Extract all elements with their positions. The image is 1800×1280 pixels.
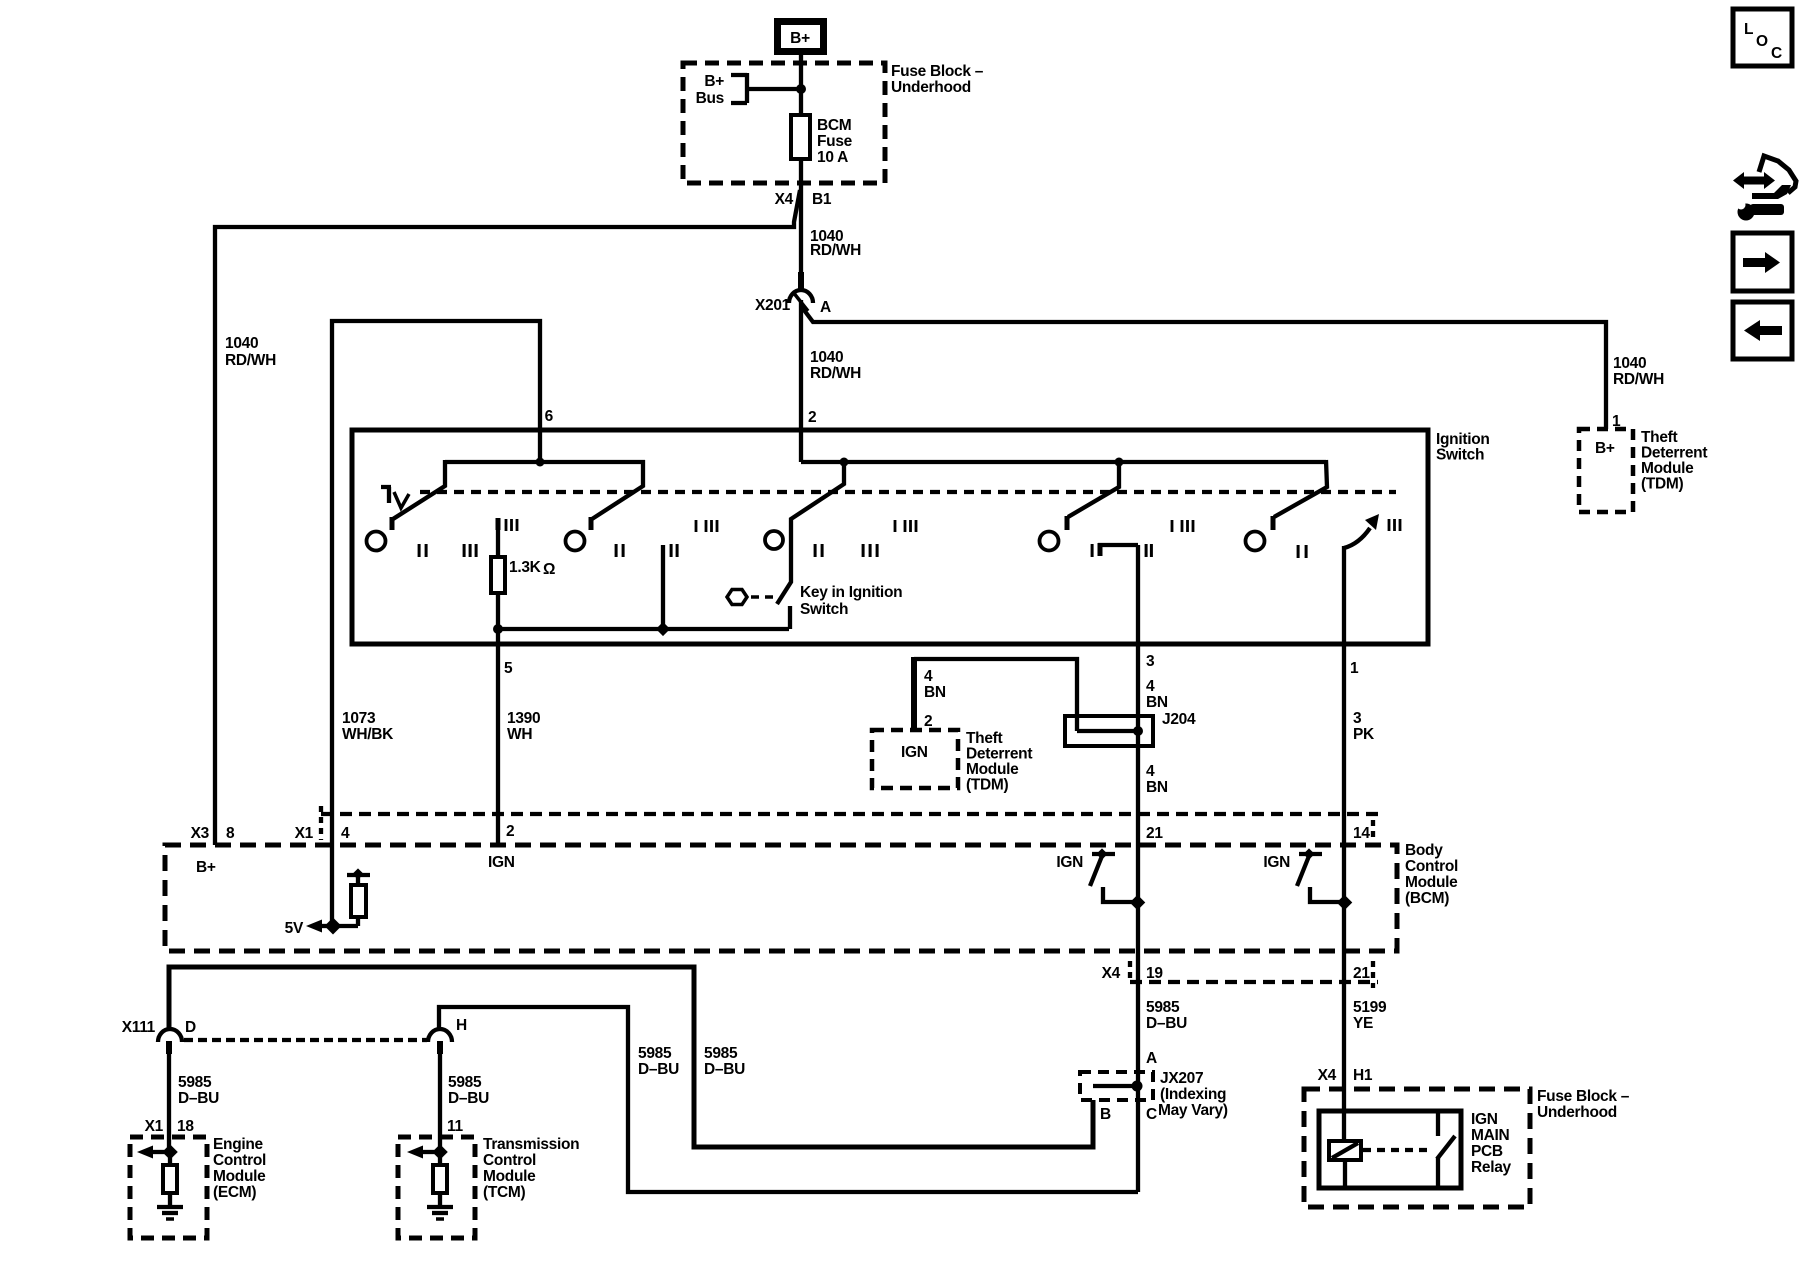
svg-text:1390: 1390	[507, 710, 540, 727]
wire relay coil to box bottom	[1343, 1160, 1347, 1188]
wire X111 D to ECM (5985 D-BU)	[167, 1052, 171, 1152]
svg-text:1.3K: 1.3K	[509, 559, 542, 576]
key symbol hexagon	[727, 590, 747, 605]
svg-text:1040: 1040	[810, 349, 843, 366]
start position momentary wiper (arrow)	[1344, 514, 1379, 548]
svg-text:C: C	[1146, 1106, 1157, 1123]
relay IGN MAIN PCB Relay box	[1319, 1111, 1461, 1188]
svg-text:19: 19	[1146, 965, 1163, 982]
svg-text:X4: X4	[1318, 1067, 1337, 1084]
relay coil	[1329, 1141, 1361, 1160]
label 4 BN (below J204)	[1146, 763, 1168, 796]
position marks upper row	[505, 519, 1402, 532]
connector X4 left tick	[1128, 961, 1132, 982]
svg-text:IGN: IGN	[488, 854, 515, 871]
svg-text:JX207: JX207	[1160, 1070, 1203, 1087]
module TDM (middle) dashed box	[872, 730, 958, 788]
BCM IGN sense switch (pin 21)	[1056, 848, 1138, 902]
rail from pin 6	[445, 460, 645, 464]
BCM pull-up resistor	[333, 868, 370, 926]
stationary contact (switch 3 position II) to pin 3	[1098, 543, 1138, 556]
svg-text:H: H	[456, 1017, 467, 1034]
connector pin H	[428, 1017, 467, 1054]
svg-text:Theft: Theft	[1641, 429, 1678, 446]
module ECM dashed box	[130, 1137, 207, 1238]
relay switch	[1437, 1111, 1455, 1188]
svg-text:Relay: Relay	[1471, 1159, 1512, 1176]
svg-text:X1: X1	[295, 825, 314, 842]
label Fuse Block - Underhood (bottom)	[1537, 1088, 1630, 1121]
glyph position marker Iv	[381, 487, 409, 508]
svg-text:14: 14	[1353, 825, 1370, 842]
svg-text:Fuse: Fuse	[817, 133, 853, 150]
wire JX207 leg B to X111 D (5985 D-BU)	[169, 967, 1093, 1147]
label 5985 D-BU (left of inner path)	[638, 1045, 679, 1078]
svg-text:5985: 5985	[448, 1074, 482, 1091]
svg-text:BN: BN	[1146, 694, 1168, 711]
svg-text:3: 3	[1353, 710, 1362, 727]
wire B+ Bus to fuse wire	[747, 87, 799, 91]
contact circle 2	[566, 532, 585, 551]
resistor 1.3K wire (contact III)	[496, 518, 501, 530]
label 3 PK	[1353, 710, 1375, 743]
module ignition switch box	[352, 430, 1428, 644]
label 4 BN (TDM stub)	[924, 668, 946, 701]
svg-text:5985: 5985	[1146, 999, 1180, 1016]
label 5985 D-BU (pin 19)	[1146, 999, 1187, 1032]
svg-text:Ω: Ω	[543, 561, 555, 578]
5V reference arrow	[285, 920, 332, 938]
icon forward arrow box	[1733, 233, 1792, 291]
power node B+ (top battery feed box)	[778, 22, 824, 52]
svg-text:Module: Module	[1405, 874, 1458, 891]
label Fuse Block - Underhood (top)	[891, 63, 984, 96]
svg-text:BN: BN	[1146, 779, 1168, 796]
junction key-in feed	[840, 458, 849, 467]
junction BCM right switch	[1337, 895, 1353, 911]
svg-text:1040: 1040	[225, 335, 258, 352]
svg-text:Bus: Bus	[696, 90, 724, 107]
wire B+ box to BCM fuse	[799, 55, 803, 117]
svg-text:H1: H1	[1353, 1067, 1373, 1084]
svg-text:8: 8	[226, 825, 235, 842]
label IGN MAIN PCB Relay	[1471, 1111, 1512, 1176]
svg-text:Key in Ignition: Key in Ignition	[800, 584, 902, 601]
module TCM dashed box	[398, 1137, 475, 1238]
icon navigation double arrow with wrench	[1733, 156, 1796, 221]
svg-text:(TCM): (TCM)	[483, 1184, 526, 1201]
position marks lower row	[418, 544, 1308, 558]
contact circle 1	[367, 532, 386, 551]
svg-text:B+: B+	[704, 73, 724, 90]
switch wiper 3	[1067, 462, 1119, 530]
svg-text:RD/WH: RD/WH	[1613, 371, 1664, 388]
TCM pull-down resistor	[433, 1152, 447, 1193]
key mechanical dashes	[751, 595, 779, 599]
svg-text:BCM: BCM	[817, 117, 851, 134]
pin label X4 H1 (relay)	[1318, 1067, 1373, 1084]
icon back arrow box	[1733, 302, 1792, 359]
label JX207 (Indexing May Vary)	[1158, 1070, 1228, 1119]
svg-text:5199: 5199	[1353, 999, 1387, 1016]
svg-text:Control: Control	[483, 1152, 536, 1169]
svg-text:5985: 5985	[704, 1045, 738, 1062]
connector X4 boundary dotted line (BCM bottom)	[1130, 980, 1378, 984]
relay mechanical dashes	[1363, 1148, 1430, 1152]
label 5985 D-BU (right of outer path)	[704, 1045, 745, 1078]
pin label X3 8	[191, 825, 235, 842]
svg-text:B1: B1	[812, 191, 832, 208]
svg-text:A: A	[1146, 1050, 1157, 1067]
svg-text:MAIN: MAIN	[1471, 1127, 1510, 1144]
svg-text:L: L	[1744, 21, 1753, 38]
label 1040 RD/WH (fuse to X201)	[810, 228, 861, 259]
wire JX207 leg C to H (5985 D-BU)	[439, 1007, 1138, 1192]
svg-text:4: 4	[341, 825, 350, 842]
svg-text:Ignition: Ignition	[1436, 431, 1490, 448]
svg-text:RD/WH: RD/WH	[225, 352, 276, 369]
branch wire to TDM pin 2	[914, 659, 1077, 731]
svg-text:O: O	[1756, 33, 1768, 50]
label Body Control Module (BCM)	[1405, 842, 1458, 907]
svg-text:J204: J204	[1162, 711, 1196, 728]
pin label X1 4	[295, 825, 350, 842]
svg-text:Switch: Switch	[800, 601, 848, 618]
stationary contact II (switch 2)	[661, 545, 665, 629]
connector X201 pin A	[755, 272, 831, 316]
svg-text:X4: X4	[775, 191, 794, 208]
junction ECM input	[162, 1144, 178, 1160]
svg-text:21: 21	[1353, 965, 1370, 982]
svg-text:(ECM): (ECM)	[213, 1184, 256, 1201]
label Key in Ignition Switch	[800, 584, 902, 618]
svg-text:IGN: IGN	[1263, 854, 1290, 871]
svg-text:Deterrent: Deterrent	[1641, 445, 1707, 462]
wire H to TCM (5985 D-BU)	[438, 1052, 442, 1152]
svg-text:2: 2	[924, 713, 932, 730]
icon LOC box (top right)	[1733, 9, 1792, 66]
svg-text:RD/WH: RD/WH	[810, 365, 861, 382]
svg-text:Control: Control	[213, 1152, 266, 1169]
label 4 BN (upper)	[1146, 678, 1168, 711]
module BCM dashed box	[165, 845, 1397, 951]
contact circle 5	[1246, 532, 1265, 551]
connector X1 right corner tick	[1371, 820, 1375, 841]
junction pin6 rail	[536, 458, 545, 467]
svg-text:Deterrent: Deterrent	[966, 746, 1032, 763]
wire pin 1 to BCM pin 14 (3 PK)	[1342, 645, 1346, 845]
svg-text:5V: 5V	[285, 920, 304, 937]
svg-text:BN: BN	[924, 684, 946, 701]
svg-text:Underhood: Underhood	[891, 79, 971, 96]
svg-text:1: 1	[1350, 660, 1359, 677]
connector X4 pin B1 labels at fuse block exit	[775, 191, 832, 208]
svg-text:Module: Module	[966, 761, 1019, 778]
BCM IGN sense switch (pin 14)	[1263, 848, 1345, 902]
junction wiper 3 feed	[1115, 458, 1124, 467]
svg-text:WH: WH	[507, 726, 532, 743]
wire resistor to pin 5	[496, 593, 500, 645]
switch wiper 1	[392, 460, 445, 530]
svg-text:Control: Control	[1405, 858, 1458, 875]
svg-text:IGN: IGN	[1056, 854, 1083, 871]
svg-text:X3: X3	[191, 825, 210, 842]
svg-text:D–BU: D–BU	[638, 1061, 679, 1078]
svg-text:4: 4	[1146, 763, 1155, 780]
TDM pin 2 stub	[911, 657, 917, 729]
svg-text:(BCM): (BCM)	[1405, 890, 1449, 907]
label Theft Deterrent Module (TDM) middle	[966, 730, 1032, 794]
label Theft Deterrent Module (TDM) top right	[1641, 429, 1707, 493]
connector X1 corner tick	[319, 806, 323, 840]
key-in switch fixed foot	[788, 606, 792, 629]
ECM pull-down resistor	[163, 1152, 177, 1193]
splice pack J204	[1065, 711, 1196, 746]
svg-text:IGN: IGN	[1471, 1111, 1498, 1128]
svg-text:5985: 5985	[178, 1074, 212, 1091]
svg-text:(TDM): (TDM)	[966, 777, 1009, 794]
wire BCM X1-4 up and over to ignition pin 6 (1073 WH/BK)	[332, 321, 540, 926]
ECM internal arrow	[137, 1146, 168, 1159]
svg-text:4: 4	[1146, 678, 1155, 695]
label Engine Control Module (ECM)	[213, 1136, 266, 1201]
label 1390 WH	[507, 710, 540, 743]
contact circle 3 (key-in)	[765, 531, 783, 549]
svg-text:Engine: Engine	[213, 1136, 264, 1153]
key-in switch feed wire	[777, 462, 844, 604]
svg-text:D–BU: D–BU	[1146, 1015, 1187, 1032]
wire pin 3 to BCM pin 21 (4 BN)	[1136, 645, 1140, 1192]
svg-text:Body: Body	[1405, 842, 1443, 859]
svg-text:Switch: Switch	[1436, 447, 1484, 464]
wire BCM pin 14 through to relay coil	[1342, 845, 1346, 1141]
wire X201 branch to TDM pin 1 (1040 RD/WH)	[801, 306, 1606, 429]
junction 5V node	[325, 918, 342, 935]
connector link dotted line X111 D to H	[184, 1038, 427, 1042]
node B+ Bus	[696, 73, 747, 107]
wire start contact to pin 1	[1342, 546, 1346, 645]
svg-text:1073: 1073	[342, 710, 376, 727]
svg-text:PK: PK	[1353, 726, 1375, 743]
svg-text:D: D	[185, 1019, 196, 1036]
svg-text:3: 3	[1146, 653, 1155, 670]
svg-text:6: 6	[545, 408, 554, 425]
rail from pin 2	[801, 460, 1326, 464]
svg-text:B: B	[1100, 1106, 1111, 1123]
internal bus wire to key-in switch	[498, 627, 789, 631]
label 1040 RD/WH (below X201)	[810, 349, 861, 382]
module Theft Deterrent Module TDM (top right)	[1579, 429, 1633, 512]
connector X4 right tick	[1371, 961, 1375, 988]
wire fuse to connector X201	[799, 159, 803, 276]
svg-text:Fuse Block –: Fuse Block –	[1537, 1088, 1630, 1105]
svg-text:21: 21	[1146, 825, 1163, 842]
pin label X4 19	[1102, 965, 1164, 982]
junction contact II bus	[656, 622, 670, 636]
TCM ground	[427, 1193, 453, 1219]
fuse block underhood (top) dashed box	[683, 63, 885, 183]
connector X1 boundary dotted line (BCM)	[321, 812, 1378, 816]
wire branch left 1040 RD/WH to BCM X3-8	[215, 190, 800, 845]
svg-text:Module: Module	[483, 1168, 536, 1185]
svg-text:WH/BK: WH/BK	[342, 726, 394, 743]
switch wiper 4	[1273, 460, 1327, 530]
svg-text:B+: B+	[1595, 440, 1615, 457]
svg-text:B+: B+	[196, 859, 216, 876]
svg-text:A: A	[820, 299, 831, 316]
label 1040 RD/WH (left branch)	[225, 335, 276, 369]
svg-text:18: 18	[177, 1118, 194, 1135]
junction TCM input	[432, 1144, 448, 1160]
svg-text:5: 5	[504, 660, 513, 677]
svg-text:X111: X111	[122, 1019, 156, 1036]
svg-text:D–BU: D–BU	[704, 1061, 745, 1078]
svg-text:Theft: Theft	[966, 730, 1003, 747]
svg-text:May Vary): May Vary)	[1158, 1102, 1228, 1119]
label 5985 D-BU (TCM)	[448, 1074, 489, 1107]
svg-text:4: 4	[924, 668, 933, 685]
splice JX207 dashed box	[1080, 1072, 1153, 1100]
label 1073 WH/BK	[342, 710, 394, 743]
svg-text:1040: 1040	[1613, 355, 1646, 372]
svg-text:Module: Module	[213, 1168, 266, 1185]
svg-text:IGN: IGN	[901, 744, 928, 761]
fuse BCM Fuse 10 A	[791, 115, 853, 166]
svg-text:YE: YE	[1353, 1015, 1373, 1032]
svg-text:X1: X1	[145, 1118, 164, 1135]
pin label X1 18	[145, 1118, 195, 1135]
svg-text:2: 2	[808, 409, 816, 426]
svg-text:10 A: 10 A	[817, 149, 848, 166]
svg-text:C: C	[1771, 45, 1782, 62]
svg-text:Module: Module	[1641, 460, 1694, 477]
svg-text:RD/WH: RD/WH	[810, 242, 861, 259]
svg-text:D–BU: D–BU	[448, 1090, 489, 1107]
label 1040 RD/WH (right, to TDM)	[1613, 355, 1664, 388]
ECM ground	[157, 1193, 183, 1219]
svg-text:5985: 5985	[638, 1045, 672, 1062]
svg-text:PCB: PCB	[1471, 1143, 1503, 1160]
wire contact to pin 3	[1136, 545, 1140, 645]
svg-text:Fuse Block –: Fuse Block –	[891, 63, 984, 80]
TCM internal arrow	[407, 1146, 438, 1159]
junction at B+ bus tap	[796, 84, 806, 94]
contact circle 4	[1040, 532, 1059, 551]
svg-text:Underhood: Underhood	[1537, 1104, 1617, 1121]
mechanical coupling dashed line	[420, 490, 1396, 494]
svg-text:B+: B+	[790, 30, 810, 47]
wire X201 to ignition switch pin 2	[799, 300, 803, 462]
svg-text:Transmission: Transmission	[483, 1136, 579, 1153]
svg-text:2: 2	[506, 823, 514, 840]
wire pin 5 to BCM pin 2 (1390 WH)	[496, 645, 500, 845]
svg-text:X4: X4	[1102, 965, 1121, 982]
svg-text:X201: X201	[755, 297, 791, 314]
label Transmission Control Module (TCM)	[483, 1136, 579, 1201]
connector X111 pin D	[122, 1019, 196, 1054]
switch wiper 2	[591, 460, 643, 530]
resistor 1.3K	[491, 557, 555, 593]
svg-text:(TDM): (TDM)	[1641, 476, 1684, 493]
svg-text:D–BU: D–BU	[178, 1090, 219, 1107]
label Ignition Switch	[1436, 431, 1490, 464]
fuse block underhood (bottom) dashed box	[1304, 1089, 1530, 1207]
junction resistor bus	[493, 624, 503, 634]
svg-text:11: 11	[447, 1118, 463, 1135]
junction BCM left switch	[1130, 895, 1146, 911]
svg-text:(Indexing: (Indexing	[1160, 1086, 1226, 1103]
label 5985 D-BU (ECM)	[178, 1074, 219, 1107]
label 5199 YE	[1353, 999, 1387, 1032]
